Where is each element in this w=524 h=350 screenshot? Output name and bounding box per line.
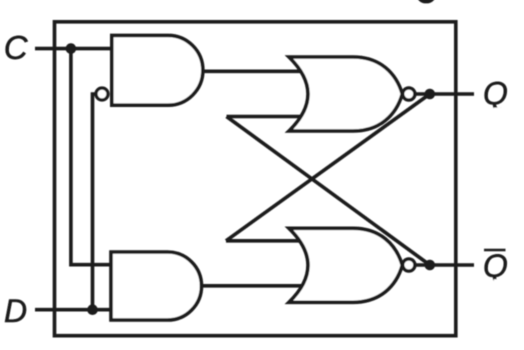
nor-gate U4 body: [289, 228, 402, 302]
nor-gate U3 body: [289, 57, 402, 131]
node Q-bar junction: [425, 260, 436, 271]
svg-text:C: C: [4, 29, 29, 66]
and-gate U2: [111, 252, 202, 320]
wire D input: [35, 308, 111, 312]
inverting input bubble on U1: [96, 88, 108, 100]
outer box: [55, 22, 456, 336]
cropped text fragment: [417, 0, 435, 3]
wire U3 lower input: [227, 115, 303, 119]
wire U1 output to U3 input: [201, 70, 302, 74]
overline of Q-bar label: [484, 249, 506, 252]
svg-text:Q: Q: [483, 248, 508, 284]
wire feedback Q to U4 (diagonal): [226, 94, 430, 241]
wire Q-bar output: [410, 263, 474, 267]
svg-text:Q: Q: [483, 75, 508, 111]
node C junction: [66, 43, 77, 54]
wire C branch vertical: [71, 49, 111, 265]
wire C input: [35, 47, 112, 51]
wire D to inverting input of U1: [93, 94, 96, 310]
wire feedback Q-bar to U3 (diagonal): [227, 117, 430, 266]
nor-gate U3 output bubble: [403, 88, 415, 100]
and-gate U1: [112, 35, 203, 105]
node Q junction: [425, 89, 436, 100]
wire U2 output to U4 input: [200, 284, 302, 288]
svg-text:D: D: [4, 293, 27, 329]
wire U4 upper input: [226, 239, 302, 243]
wire Q output: [410, 92, 474, 96]
nor-gate U4 output bubble: [403, 259, 415, 271]
node D junction: [87, 304, 98, 315]
